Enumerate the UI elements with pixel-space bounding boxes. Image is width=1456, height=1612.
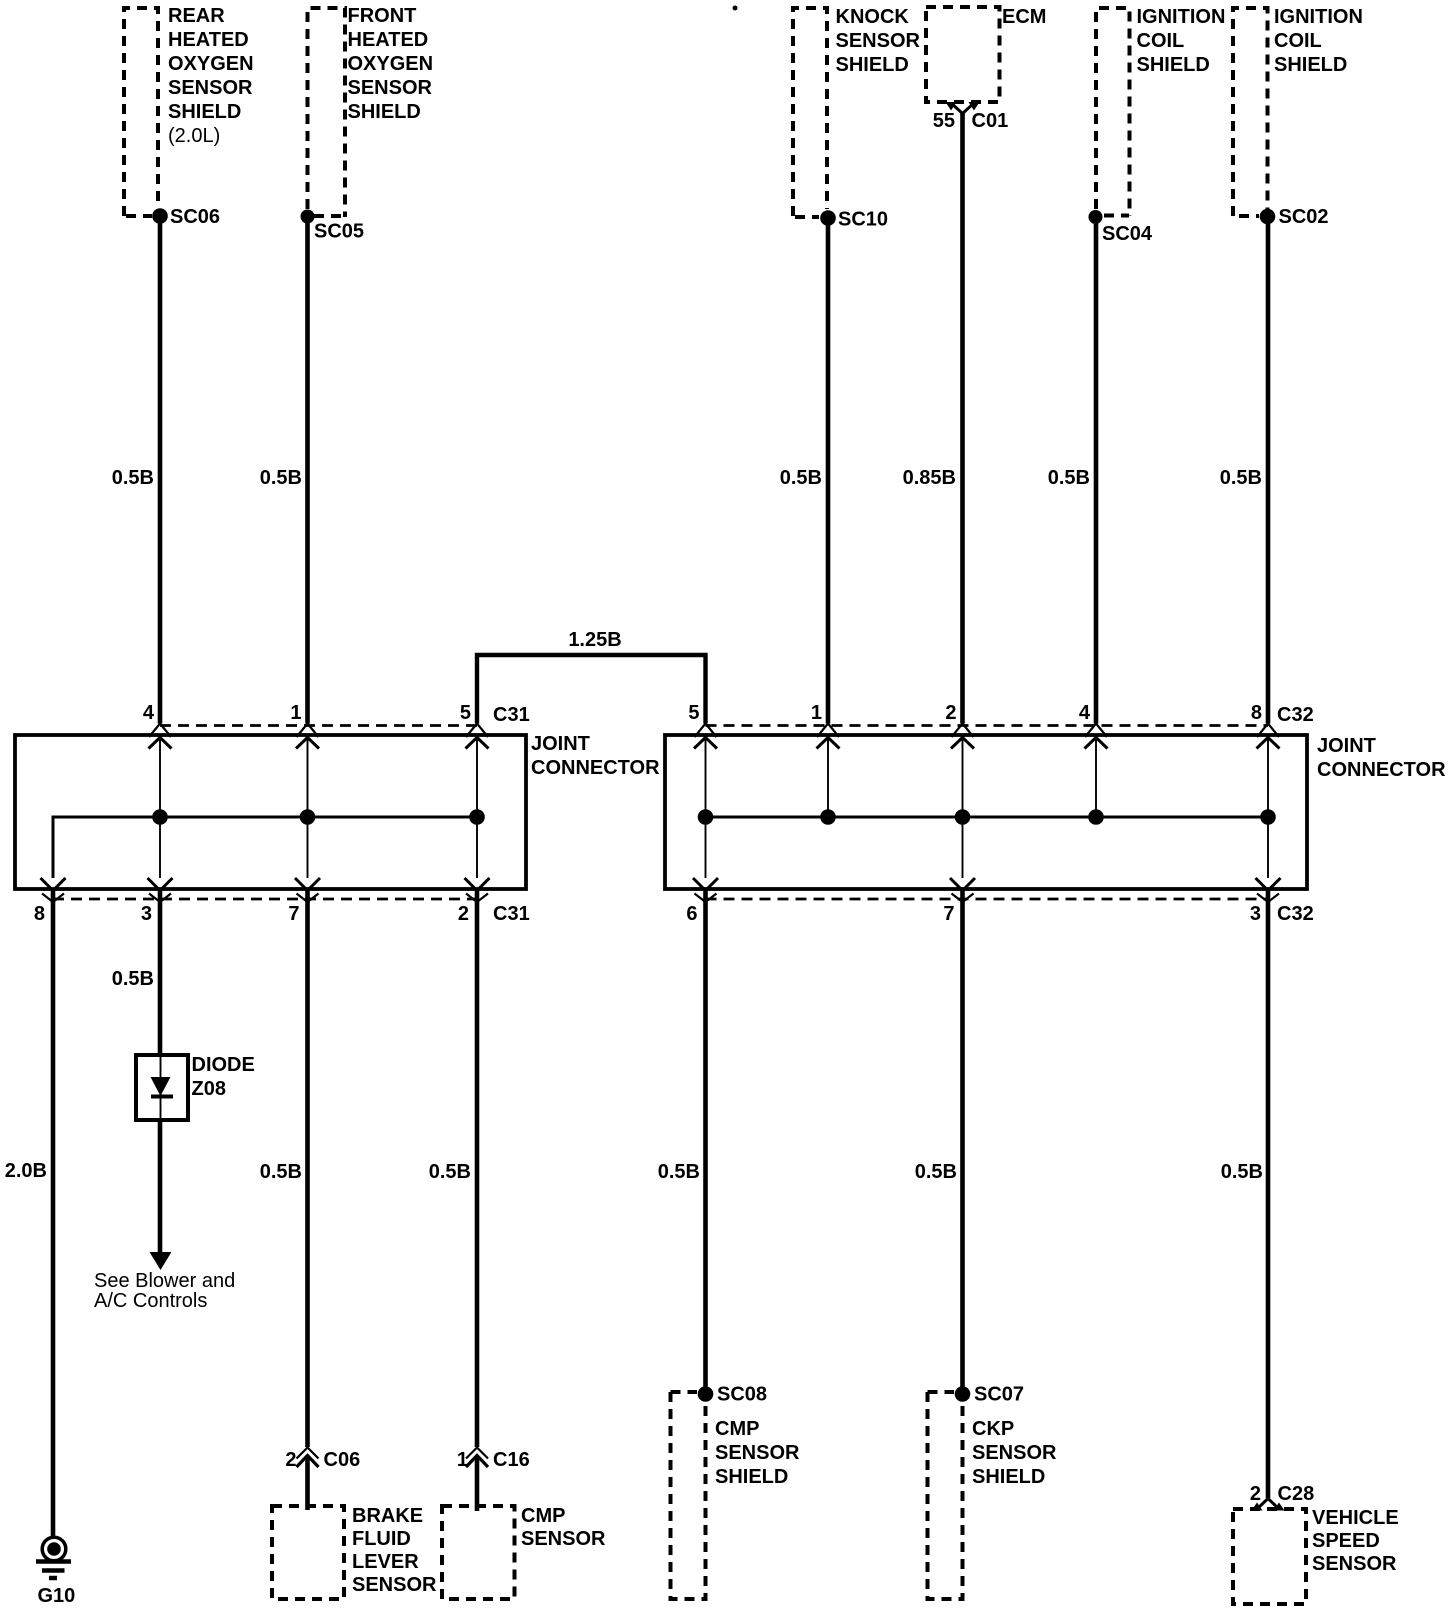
svg-text:0.5B: 0.5B [1220, 467, 1262, 489]
C31 bottom pin dashed line [53, 898, 477, 901]
wire 0.5B: SC04 to C32 pin 4 [1094, 217, 1099, 724]
svg-text:2: 2 [945, 702, 956, 724]
svg-text:1: 1 [811, 702, 822, 724]
pin 7 of C32 [943, 817, 975, 925]
svg-text:2: 2 [285, 1449, 296, 1471]
svg-text:SENSOR: SENSOR [715, 1442, 800, 1464]
pin 3 of C32 [1250, 817, 1281, 925]
wire: C16 to CMP sensor [475, 1457, 480, 1512]
component box: CMP sensor [442, 1506, 515, 1599]
svg-text:COIL: COIL [1274, 30, 1322, 52]
svg-text:1: 1 [290, 702, 301, 724]
wire 0.5B: C31 pin 3 to diode Z08 [158, 890, 163, 1056]
wire: C06 to brake fluid lever sensor [305, 1457, 310, 1511]
svg-text:CMP: CMP [715, 1418, 759, 1440]
svg-text:2: 2 [1250, 1483, 1261, 1505]
pin 4 of C31 [143, 702, 172, 817]
junction dot C31 pin1/7 [300, 809, 316, 825]
svg-text:0.5B: 0.5B [780, 467, 822, 489]
svg-text:1: 1 [457, 1449, 468, 1471]
svg-text:SENSOR: SENSOR [352, 1574, 437, 1596]
svg-text:CMP: CMP [521, 1505, 565, 1527]
diode Z08 [136, 1054, 255, 1120]
label: VEHICLE SPEED SENSOR [1312, 1507, 1399, 1575]
svg-text:6: 6 [686, 903, 697, 925]
pin 1 of C31 [290, 702, 319, 817]
label: IGNITION COIL SHIELD (left) [1137, 6, 1226, 76]
wire 0.5B: SC02 to C32 pin 8 [1266, 217, 1271, 724]
wire 0.85B: ECM C01 pin 55 to C32 pin 2 [960, 113, 965, 724]
svg-text:0.85B: 0.85B [903, 467, 956, 489]
svg-text:SENSOR: SENSOR [521, 1528, 606, 1550]
splice SC06 [152, 206, 220, 228]
svg-text:0.5B: 0.5B [260, 1161, 302, 1183]
pin 5 of C32 [688, 702, 717, 817]
splice SC02 [1260, 206, 1329, 228]
svg-text:CKP: CKP [972, 1418, 1014, 1440]
svg-text:IGNITION: IGNITION [1274, 6, 1363, 28]
splice SC07 [955, 1384, 1024, 1406]
wire 0.5B: C32 pin 6 to SC08 [703, 890, 708, 1395]
label: REAR HEATED OXYGEN SENSOR SHIELD (2.0L) [168, 5, 254, 147]
svg-text:VEHICLE: VEHICLE [1312, 1507, 1399, 1529]
wire 0.5B: C31 pin 2 to C16 [475, 890, 480, 1448]
svg-text:4: 4 [1079, 702, 1091, 724]
label: KNOCK SENSOR SHIELD [836, 6, 921, 76]
svg-text:7: 7 [943, 903, 954, 925]
svg-text:OXYGEN: OXYGEN [348, 53, 434, 75]
svg-text:5: 5 [460, 702, 471, 724]
svg-text:8: 8 [1251, 702, 1262, 724]
svg-text:Z08: Z08 [192, 1078, 226, 1100]
svg-text:SHIELD: SHIELD [715, 1466, 788, 1488]
connector C16 pin 1 [457, 1448, 530, 1472]
wire 0.5B: C31 pin 7 to C06 [305, 890, 310, 1448]
svg-text:0.5B: 0.5B [1048, 467, 1090, 489]
svg-text:LEVER: LEVER [352, 1551, 419, 1573]
svg-text:JOINT: JOINT [1317, 735, 1376, 757]
label: JOINT CONNECTOR (left) [531, 733, 660, 779]
svg-text:C32: C32 [1277, 704, 1314, 726]
junction dot C32 pin1 [820, 809, 836, 825]
wire 2.0B: C31 pin 8 to ground G10 [51, 890, 56, 1538]
svg-text:0.5B: 0.5B [429, 1161, 471, 1183]
component box: ignition coil shield (left) [1096, 8, 1130, 216]
component box: ECM [926, 7, 1000, 102]
pin 4 of C32 [1079, 702, 1108, 817]
svg-text:ECM: ECM [1002, 6, 1046, 28]
pin 8 of C31 [34, 817, 66, 925]
svg-text:C31: C31 [493, 704, 530, 726]
splice SC08 [698, 1384, 767, 1406]
connector C28 pin 2 [1250, 1483, 1314, 1511]
svg-text:SENSOR: SENSOR [836, 30, 921, 52]
splice SC04 [1089, 210, 1153, 245]
svg-text:0.5B: 0.5B [112, 968, 154, 990]
svg-text:0.5B: 0.5B [112, 467, 154, 489]
svg-text:CONNECTOR: CONNECTOR [531, 757, 660, 779]
svg-text:SC10: SC10 [838, 209, 888, 231]
svg-text:G10: G10 [38, 1585, 76, 1607]
svg-text:SC04: SC04 [1102, 223, 1153, 245]
wire 0.5B: SC06 to C31 pin 4 [158, 216, 163, 724]
svg-text:SHIELD: SHIELD [972, 1466, 1045, 1488]
label: IGNITION COIL SHIELD (right) [1274, 6, 1363, 76]
wire 0.5B: SC10 to C32 pin 1 [826, 218, 831, 724]
component box: rear heated oxygen sensor shield [124, 8, 158, 216]
svg-text:0.5B: 0.5B [915, 1161, 957, 1183]
label: ECM [1002, 6, 1046, 28]
svg-text:SPEED: SPEED [1312, 1530, 1380, 1552]
svg-text:8: 8 [34, 903, 45, 925]
component box: knock sensor shield [793, 8, 827, 217]
svg-text:SHIELD: SHIELD [168, 101, 241, 123]
svg-text:3: 3 [1250, 903, 1261, 925]
svg-text:IGNITION: IGNITION [1137, 6, 1226, 28]
svg-text:BRAKE: BRAKE [352, 1505, 423, 1527]
svg-text:SHIELD: SHIELD [836, 54, 909, 76]
connector C01 pin 55 (ECM) [933, 102, 1008, 132]
component box: CKP sensor shield [928, 1392, 963, 1599]
junction dot C32 pin8/3 [1260, 809, 1276, 825]
component box: CMP sensor shield [671, 1392, 706, 1599]
svg-text:C31: C31 [493, 903, 530, 925]
svg-text:See Blower and: See Blower and [94, 1270, 235, 1292]
splice SC10 [820, 209, 888, 231]
svg-text:SHIELD: SHIELD [1137, 54, 1210, 76]
svg-text:FRONT: FRONT [348, 5, 417, 27]
junction dot C32 pin5/6 [698, 809, 714, 825]
ground G10 [36, 1537, 75, 1607]
svg-text:3: 3 [141, 903, 152, 925]
svg-text:SHIELD: SHIELD [1274, 54, 1347, 76]
svg-text:SENSOR: SENSOR [972, 1442, 1057, 1464]
svg-text:7: 7 [288, 903, 299, 925]
pin 8 of C32 [1251, 702, 1280, 817]
svg-text:C16: C16 [493, 1449, 530, 1471]
svg-text:2: 2 [458, 903, 469, 925]
connector C06 pin 2 [285, 1448, 360, 1472]
svg-text:FLUID: FLUID [352, 1528, 411, 1550]
junction dot C31 pin4/3 [152, 809, 168, 825]
svg-text:CONNECTOR: CONNECTOR [1317, 759, 1446, 781]
svg-text:SC02: SC02 [1279, 206, 1329, 228]
svg-text:SC07: SC07 [974, 1384, 1024, 1406]
pin 2 of C31 [458, 817, 490, 925]
label: JOINT CONNECTOR (right) [1317, 735, 1446, 781]
wire 0.5B: SC05 to C31 pin 1 [305, 217, 310, 724]
svg-text:DIODE: DIODE [192, 1054, 255, 1076]
label: See Blower and A/C Controls [94, 1270, 235, 1312]
wire: diode Z08 to blower/AC controls (arrow) [150, 1120, 172, 1270]
svg-text:KNOCK: KNOCK [836, 6, 910, 28]
svg-text:1.25B: 1.25B [568, 629, 621, 651]
component box: brake fluid lever sensor [272, 1506, 344, 1599]
svg-text:0.5B: 0.5B [658, 1161, 700, 1183]
pin 2 of C32 [945, 702, 974, 817]
pin 5 of C31 [460, 702, 489, 817]
stray mark (scan speck) [733, 6, 738, 11]
svg-text:55: 55 [933, 110, 955, 132]
svg-text:(2.0L): (2.0L) [168, 125, 220, 147]
label: FRONT HEATED OXYGEN SENSOR SHIELD [348, 5, 434, 123]
junction dot C32 pin4 [1088, 809, 1104, 825]
junction dot C32 pin2/7 [955, 809, 971, 825]
label: BRAKE FLUID LEVER SENSOR [352, 1505, 437, 1596]
C32 top pin dashed line [706, 724, 1269, 727]
svg-text:OXYGEN: OXYGEN [168, 53, 254, 75]
svg-text:C06: C06 [324, 1449, 361, 1471]
label: CKP SENSOR SHIELD [972, 1418, 1057, 1488]
component box: front heated oxygen sensor shield [308, 8, 346, 217]
label: CMP SENSOR [521, 1505, 606, 1550]
svg-text:SC08: SC08 [717, 1384, 767, 1406]
svg-text:HEATED: HEATED [168, 29, 249, 51]
svg-text:A/C Controls: A/C Controls [94, 1290, 207, 1312]
svg-text:C32: C32 [1277, 903, 1314, 925]
C31 top pin dashed line [160, 724, 477, 727]
wire 0.5B: C32 pin 3 to C28 [1266, 890, 1271, 1499]
junction dot C31 pin5/2 [469, 809, 485, 825]
wire 1.25B: C31 pin 5 to C32 pin 5 [477, 655, 706, 724]
svg-text:REAR: REAR [168, 5, 225, 27]
C32 bottom pin dashed line [706, 898, 1269, 901]
component box: vehicle speed sensor [1233, 1509, 1306, 1604]
wire 0.5B: C32 pin 7 to SC07 [960, 890, 965, 1395]
svg-text:SENSOR: SENSOR [168, 77, 253, 99]
svg-text:COIL: COIL [1137, 30, 1185, 52]
joint connector C32 (box) [665, 735, 1307, 889]
joint connector C31 (box) [15, 735, 526, 889]
pin 1 of C32 [811, 702, 840, 817]
label: CMP SENSOR SHIELD [715, 1418, 800, 1488]
svg-text:SENSOR: SENSOR [1312, 1553, 1397, 1575]
pin 3 of C31 [141, 817, 173, 925]
C32 internal bus [706, 816, 1269, 819]
pin 6 of C32 [686, 817, 718, 925]
svg-text:SHIELD: SHIELD [348, 101, 421, 123]
svg-text:SENSOR: SENSOR [348, 77, 433, 99]
svg-text:JOINT: JOINT [531, 733, 590, 755]
svg-text:4: 4 [143, 702, 155, 724]
svg-text:HEATED: HEATED [348, 29, 429, 51]
svg-text:SC05: SC05 [314, 221, 364, 243]
svg-text:SC06: SC06 [170, 206, 220, 228]
svg-text:2.0B: 2.0B [5, 1160, 47, 1182]
splice SC05 [301, 210, 365, 243]
svg-text:C01: C01 [972, 110, 1009, 132]
svg-text:5: 5 [688, 702, 699, 724]
pin 7 of C31 [288, 817, 320, 925]
component box: ignition coil shield (right) [1233, 8, 1268, 216]
svg-text:0.5B: 0.5B [1221, 1161, 1263, 1183]
svg-text:0.5B: 0.5B [260, 467, 302, 489]
svg-text:C28: C28 [1278, 1483, 1315, 1505]
C31 internal bus [53, 817, 477, 878]
